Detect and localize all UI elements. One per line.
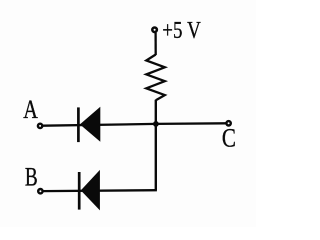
resistor R1 [146,55,165,101]
diode D2 (input B) cathode bar [78,172,81,210]
wire B row: input B to corner [43,189,157,192]
terminal C [226,121,230,125]
svg-text:A: A [23,95,38,124]
wire A row: input A to output C [43,123,226,125]
wire from resistor through junction down to B branch corner [155,100,157,191]
terminal A [38,124,42,128]
diode D2 triangle [81,170,100,211]
svg-text:C: C [222,124,236,153]
wire from +5V terminal to resistor [154,33,156,55]
diode D1 (input A) cathode bar [77,107,80,142]
terminal B [38,189,42,193]
svg-text:B: B [25,163,38,192]
node junction [153,121,159,127]
power terminal +5V [152,28,157,33]
diode D1 triangle [80,107,100,142]
svg-text:+5 V: +5 V [162,17,201,44]
